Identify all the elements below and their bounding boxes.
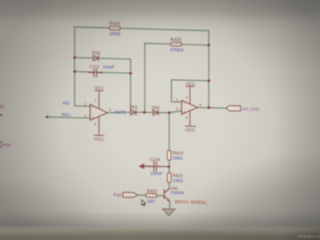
left-edge clipped arrow	[0, 113, 3, 118]
resistor R420	[167, 150, 171, 160]
diode D62	[153, 110, 158, 116]
junction node between R420 and R421 at C224	[168, 165, 171, 168]
svg-text:C224: C224	[149, 157, 160, 162]
svg-text:7: 7	[186, 96, 188, 100]
svg-text:IN1-: IN1-	[63, 100, 72, 105]
resistor R426	[110, 26, 121, 30]
wire: R420 to junction to R421	[168, 160, 170, 173]
svg-text:P60: P60	[113, 192, 122, 197]
port AD_CH0	[226, 106, 240, 112]
transistor Q66	[164, 189, 170, 202]
op-amp U2 (right)	[182, 100, 198, 114]
wire: left vertical IN1- net	[74, 27, 76, 106]
svg-text:P60: P60	[3, 142, 11, 147]
wire: OUT1 to diodes to op-amp2 pin3	[108, 109, 182, 115]
svg-text:4: 4	[94, 122, 96, 126]
svg-text:4: 4	[186, 116, 188, 120]
svg-text:-VCC: -VCC	[93, 136, 104, 141]
power arrow left of C224	[139, 163, 145, 169]
wire: right vertical output net	[208, 31, 210, 108]
wire: emitter stub to ground	[169, 202, 171, 210]
svg-text:C221: C221	[90, 64, 101, 69]
wire: R425 branch horizontal + vertical to D-node	[145, 43, 209, 114]
wire: C224 branch horizontal	[144, 165, 169, 168]
svg-text:1kΩ: 1kΩ	[147, 199, 156, 204]
wire: C221 branch	[75, 72, 131, 74]
svg-text:OUT1: OUT1	[115, 110, 127, 115]
left-edge clipped port P60	[0, 142, 1, 148]
svg-text:-VCC: -VCC	[185, 127, 196, 132]
svg-text:2: 2	[176, 98, 178, 102]
wire: op-amp1 pin3 input	[47, 117, 90, 118]
svg-text:D63: D63	[92, 50, 101, 55]
wire: op-amp1 pin2 input	[75, 105, 91, 107]
wire: divider vertical D-node to R420	[168, 113, 170, 151]
diode D61	[131, 110, 136, 116]
VCC power symbol op-amp1	[95, 91, 103, 109]
-VCC power symbol op-amp1	[94, 116, 104, 135]
wire: P60 port to R432 to base	[138, 194, 147, 196]
svg-text:39kΩ: 39kΩ	[173, 155, 184, 160]
svg-text:D61: D61	[130, 104, 139, 109]
dangling end square pin3	[46, 116, 48, 118]
svg-text:9VDC: 9VDC	[0, 104, 5, 109]
svg-text:AD_CH0: AD_CH0	[242, 106, 260, 111]
junction on IN1- vertical at D63 branch	[73, 56, 76, 59]
svg-text:2: 2	[84, 103, 86, 107]
svg-text:3: 3	[84, 114, 86, 118]
capacitor C224 100nF	[145, 161, 165, 171]
svg-text:470kΩ: 470kΩ	[170, 47, 184, 52]
svg-text:100nF: 100nF	[103, 64, 115, 69]
svg-text:BZDY1: 9VDE3C: BZDY1: 9VDE3C	[175, 199, 207, 205]
wire: right vertical of C/D feedback to OUT1	[130, 59, 132, 112]
op-amp U1 (left)	[90, 104, 107, 120]
resistor R425	[171, 42, 182, 46]
diode D63	[93, 55, 98, 61]
svg-text:VCC: VCC	[186, 81, 195, 86]
svg-text:R425: R425	[171, 37, 182, 42]
junction on IN1- vertical at C221 branch	[73, 70, 76, 73]
svg-text:7: 7	[94, 99, 96, 103]
svg-text:3: 3	[176, 107, 178, 111]
svg-text:2SB868: 2SB868	[171, 191, 184, 195]
svg-text:R432: R432	[147, 188, 158, 193]
junction on output vertical at R425 branch	[208, 44, 211, 47]
wire: op-amp2 output to port	[198, 106, 227, 109]
svg-text:6: 6	[199, 103, 201, 107]
junction node at op-amp2 output	[208, 106, 211, 109]
svg-text:100nF: 100nF	[150, 171, 163, 176]
wire: op-amp2 pin3 stub	[169, 111, 181, 114]
svg-text:VCC: VCC	[95, 86, 104, 91]
ground under Q66	[162, 209, 175, 216]
svg-text:20kΩ: 20kΩ	[110, 31, 121, 36]
resistor R421	[167, 173, 171, 183]
svg-text:IN1+: IN1+	[62, 112, 72, 117]
junction node between D61 and D62	[143, 111, 146, 114]
junction on OUT1 vertical at C221 branch	[129, 72, 132, 75]
VCC power symbol op-amp2	[186, 86, 194, 104]
svg-text:10kΩ: 10kΩ	[173, 178, 184, 183]
svg-text:D62: D62	[152, 105, 161, 110]
capacitor C221 100nF	[89, 69, 103, 77]
mouse cursor	[142, 200, 146, 206]
svg-text:R426: R426	[109, 21, 120, 26]
port P60	[123, 192, 138, 197]
-VCC power symbol op-amp2	[186, 110, 196, 126]
junction on output vertical at pin2 feedback	[208, 79, 211, 82]
wire: R421 to Q66 collector	[168, 183, 170, 189]
wire: D63 branch	[75, 58, 131, 60]
wire: op-amp2 pin2 feedback loop	[172, 80, 209, 103]
resistor R432	[146, 193, 157, 197]
wire: top feedback (R426 net)	[75, 27, 209, 31]
junction node at op-amp2 pin3 / divider	[168, 111, 171, 114]
svg-text:6: 6	[109, 108, 111, 112]
